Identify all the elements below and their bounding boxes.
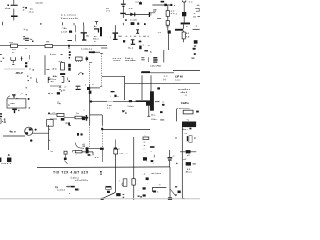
arc mark (78-82.5,72.5-75) bbox=[79, 73, 82, 75]
junction cross at x86 bbox=[86, 115, 88, 121]
colon mark (68,122.5) bbox=[68, 122, 70, 125]
sub box H17 (152.5,187.4) bbox=[153, 187, 167, 192]
dark mark (87.5,154.3) bbox=[88, 154, 91, 156]
svg-text:uAu.2: uAu.2 bbox=[181, 91, 188, 94]
svg-text:+1oo: +1oo bbox=[5, 8, 11, 10]
svg-text:1oo.2u: 1oo.2u bbox=[35, 2, 43, 4]
marks below wires (65-72,122-127) bbox=[65, 123, 67, 124]
svg-text:L.u.n.: L.u.n. bbox=[50, 54, 57, 56]
svg-text:xn.u.: xn.u. bbox=[29, 12, 35, 14]
mark (137,22.5) bbox=[137, 23, 139, 25]
capacitor C3 (electrolytic mid-top) bbox=[81, 25, 87, 40]
svg-text:(.): (.) bbox=[166, 26, 169, 28]
marks top right (193.8,53) bbox=[194, 53, 196, 55]
mark I. (57,101-104) bbox=[57, 101, 59, 104]
dashed shield x102.3 y125-150 bbox=[101, 125, 103, 150]
dashed shield wire V6 upper bbox=[89, 62, 91, 84]
wire H7 y101.3 bbox=[92, 100, 107, 102]
dot right of T bbox=[18, 110, 20, 112]
dark mark (75,188.6) bbox=[75, 189, 78, 191]
thick segment of H7 bbox=[136, 100, 147, 102]
dashes right of MX bbox=[66, 186, 70, 187]
thin vertical x102.5 y150-162 bbox=[102, 150, 104, 162]
small box B2 bbox=[47, 120, 54, 127]
diode D1 on H2 bbox=[130, 13, 135, 17]
left edge stack marks y113-117 bbox=[0, 113, 2, 114]
left edge bar (0,157.5) bbox=[0, 158, 1, 163]
small box (143,137) bbox=[143, 137, 149, 140]
tick right edge (23.8,29) bbox=[24, 28, 25, 31]
marks bottom row x125-146 bbox=[125, 19, 127, 21]
dot (29,108) bbox=[29, 107, 31, 109]
svg-text:dC: dC bbox=[86, 36, 89, 38]
wire pair into resistor network y114/119 bbox=[50, 113, 57, 115]
dark dash (144.4-148,50-51.5) bbox=[144, 50, 148, 51]
black bar connector (150,91.3-110.6) bbox=[150, 91, 154, 110]
ticks on rail bbox=[48, 128, 50, 131]
mark right (196,110.6) bbox=[196, 111, 199, 113]
svg-text:Cu: Cu bbox=[30, 8, 34, 10]
stub below junction bbox=[68, 47, 70, 49]
dots (12-14,64) bbox=[12, 64, 14, 65]
relay legs bbox=[77, 61, 81, 62]
svg-text:u.: u. bbox=[186, 26, 188, 28]
dark wedge component (7,157.5) bbox=[7, 158, 11, 163]
svg-text:...: ... bbox=[144, 135, 146, 137]
svg-text:L.C.8: L.C.8 bbox=[61, 31, 68, 33]
tick on V5 (46.5,69.4) bbox=[46, 68, 49, 71]
wire H13 y148.7 bbox=[86, 148, 102, 150]
dark cross node (60.6-64.4,118-120.6) bbox=[61, 118, 65, 121]
diode D4 bbox=[186, 150, 191, 153]
marks (137.5,196) bbox=[138, 195, 140, 197]
wire V17 x133.75 bbox=[133, 137, 135, 200]
svg-text:nu.ucA.u.s: nu.ucA.u.s bbox=[178, 88, 191, 91]
wire stub left edge y22-25 bbox=[2, 22, 4, 25]
plus blob (114.4,94.8) bbox=[114, 95, 116, 97]
node dot (32.5,41) bbox=[32, 41, 34, 42]
svg-text:u nn.u .n: u nn.u .n bbox=[1, 163, 12, 165]
junction blob (168,30.5) bbox=[168, 30, 171, 33]
svg-text:abc.~: abc.~ bbox=[182, 129, 189, 131]
vertical wire x75.5 upper bbox=[75, 25, 77, 41]
svg-text:u.un.u.nu.u: u.un.u.nu.u bbox=[177, 108, 190, 110]
angle mark (7-10,96-98) bbox=[7, 96, 10, 98]
left edge marks x0-5 bbox=[0, 54, 2, 55]
svg-text:u.: u. bbox=[94, 41, 96, 43]
dot (25.6,87.8) bbox=[26, 87, 27, 88]
wire below R4 bbox=[167, 25, 169, 30]
Q1 emitter arrow bbox=[25, 132, 28, 134]
svg-text:u.n: u.n bbox=[95, 157, 99, 159]
black square (123,40) bbox=[123, 40, 125, 42]
colon column (122.5,194-199) bbox=[123, 194, 125, 195]
power transistor black block (182,121.5) bbox=[182, 122, 196, 128]
sub-circuit box B1 bbox=[7, 99, 26, 108]
pot adjust dotted arrow (26-34,75-82) bbox=[27, 76, 28, 77]
wire V18 x115.6 bbox=[115, 154, 117, 192]
wire H7 junction dot bbox=[89, 101, 92, 103]
svg-text:u.u: u.u bbox=[164, 75, 168, 77]
svg-text:n.u.2u.n.u: n.u.2u.n.u bbox=[81, 48, 93, 50]
wire V x124.4 bbox=[123, 76, 125, 100]
svg-text:LIP NI: LIP NI bbox=[175, 75, 183, 79]
svg-text:u.: u. bbox=[194, 13, 196, 15]
dark plus mark (68.3,68) bbox=[68, 68, 70, 71]
svg-text:~.u: ~.u bbox=[119, 153, 123, 155]
diagonal wire stub bottom right bbox=[170, 189, 176, 196]
label above H3 bbox=[161, 1, 165, 3]
title box top line H14 bbox=[37, 166, 170, 169]
svg-text::.:: :.: bbox=[143, 148, 146, 150]
wire H11 y133.2 bbox=[32, 132, 48, 134]
svg-text:* Bu: * Bu bbox=[62, 28, 67, 30]
connector 8 marks (68.8-70.6,51-56) bbox=[69, 51, 71, 53]
svg-text:.u.: .u. bbox=[51, 93, 54, 95]
ground foot (113.9,147.6) bbox=[114, 148, 117, 150]
capacitor C7 horizontal plates (75.6,85.8/88.9) bbox=[76, 86, 81, 87]
wire V11 x142 bbox=[141, 75, 143, 100]
svg-text:u.ucv.n: u.ucv.n bbox=[57, 190, 66, 192]
cap stack Ξ (153-157.5,57-62.5) bbox=[153, 57, 157, 58]
capacitor to ground (131-135.6,39.4-45) bbox=[131, 39, 135, 45]
svg-text:n.u: n.u bbox=[189, 2, 193, 4]
wire V4 lower bbox=[183, 16, 185, 22]
transistor Q2 blob (85.6,57.5) bbox=[86, 57, 89, 60]
svg-text:JPn.P: JPn.P bbox=[15, 71, 23, 75]
resistor R11 on V17 bbox=[132, 179, 135, 185]
switch contact U shape (10.6-15.6,57-60.6) bbox=[11, 57, 16, 60]
corner mark (72.5,150.5) bbox=[73, 151, 75, 153]
crystal Y1 (137,29.4-33.8) bbox=[136, 29, 139, 34]
node mark left of C1 bbox=[7, 5, 9, 6]
resistor R3 bbox=[166, 11, 169, 17]
wire H4 y76.3 bbox=[102, 75, 125, 77]
svg-text:A.C;: A.C; bbox=[52, 67, 57, 70]
capacitor C5 (electrolytic at x123.5 top) bbox=[120, 0, 125, 18]
dot (25.6,94.6) bbox=[26, 94, 27, 95]
thin vertical (115.5,139.4-147.5) bbox=[115, 139, 117, 147]
arrow triangle (122.5,110.3) bbox=[122, 110, 126, 112]
svg-text:unn.nAse: unn.nAse bbox=[125, 59, 136, 62]
svg-text:n.u.s: n.u.s bbox=[175, 80, 181, 82]
shield top corner bbox=[100, 52, 103, 54]
junction node on H1 at x69 bbox=[68, 45, 70, 47]
vertical wire V5 x45 bbox=[44, 55, 46, 75]
diode D5 on V15 bbox=[186, 162, 191, 166]
diode D4 wire top right bbox=[180, 151, 196, 153]
wire from top edge to C1 bbox=[13, 0, 15, 5]
shield bottom corner bbox=[100, 85, 102, 87]
svg-text:4w. n: 4w. n bbox=[9, 130, 16, 134]
dark stack left edge (25,62-67.5) bbox=[25, 62, 27, 64]
svg-text:...: ... bbox=[75, 154, 77, 156]
svg-text:2,: 2, bbox=[29, 69, 31, 71]
black bar component (100,27) bbox=[100, 27, 102, 36]
svg-text:u:: u: bbox=[144, 142, 146, 144]
mark (157.3,87.5) bbox=[157, 87, 160, 89]
wire H9 y114.9 bbox=[90, 114, 102, 116]
faint wire y69 bbox=[4, 68, 25, 70]
bus wire H1 y45.7 bbox=[0, 45, 107, 47]
svg-text:n.u.2n: n.u.2n bbox=[130, 20, 138, 22]
small mark (40.5,23.5) bbox=[40, 23, 42, 24]
svg-text:u nn.x: u nn.x bbox=[113, 60, 121, 62]
wire V16b below title line bbox=[169, 167, 171, 199]
wire V15 x182.3 bbox=[182, 127, 184, 198]
resistor R1 on H1 bbox=[11, 44, 18, 47]
dark mark (142.5,194.5) bbox=[143, 194, 146, 196]
wire V3 continues bbox=[168, 34, 170, 50]
blob on H7 (128.8,100.2) bbox=[129, 100, 132, 102]
junction blob on H3 bbox=[164, 4, 167, 6]
dark corner (116.3,193.2) bbox=[116, 193, 120, 196]
wire H10 y129.4 bbox=[103, 128, 151, 130]
corner blob (101,198) bbox=[101, 198, 104, 200]
node dot on V5b bbox=[48, 78, 50, 80]
stub below C5 bbox=[122, 23, 124, 25]
tick (16.3,98) bbox=[16, 98, 17, 99]
svg-text:.nn: .nn bbox=[50, 81, 54, 83]
C6 plus node bbox=[64, 158, 67, 161]
wire H12 y136 bbox=[3, 135, 25, 137]
svg-text:ny: ny bbox=[55, 186, 59, 189]
capacitor C2 (plates at x25,y38/40) bbox=[25, 38, 29, 41]
dark T mark (12-15.6,94-97.5) bbox=[12, 94, 16, 95]
resistor R8 bbox=[75, 116, 82, 119]
resistor R4 bbox=[166, 21, 169, 26]
dot (33,70) bbox=[32, 69, 34, 71]
resistor R10 vertical (113.8,149.3) bbox=[114, 149, 118, 154]
svg-text:s.: s. bbox=[117, 96, 119, 98]
bracket contact right (20-23,56-61) bbox=[21, 56, 23, 61]
dark mark (142.5,187.4) bbox=[143, 187, 146, 189]
curve (20-23,92.5-95) bbox=[20, 93, 23, 95]
junction cross on H15 bbox=[86, 150, 89, 153]
left cluster marks x150-156 y146-164 bbox=[150, 146, 155, 148]
resistor R7 bbox=[57, 113, 64, 116]
svg-text:2.2u~: 2.2u~ bbox=[151, 119, 158, 121]
junction blob on V6 (87-90,87-90) bbox=[87, 87, 90, 90]
wire (50-58.8,86) bbox=[50, 85, 59, 87]
resistor R5 bbox=[182, 32, 185, 39]
wire between R3/R4 bbox=[167, 16, 169, 20]
small mark right edge (22.8,7.5) bbox=[23, 7, 25, 8]
dark corner (100,147.6) bbox=[100, 148, 104, 150]
diagonal wire bottom bbox=[100, 193, 115, 200]
shield wire x102.3 y114.9-125 bbox=[101, 115, 103, 125]
dots (60.6,54) bbox=[61, 54, 63, 55]
dot left (176.3,163) bbox=[176, 163, 178, 165]
dark curve mark (145.6,177.5) bbox=[146, 177, 149, 180]
bracket component (94-99,28-32) bbox=[94, 28, 99, 29]
wire V13 x151 bbox=[150, 75, 152, 91]
shield dashed wire x101.5 bbox=[101, 53, 103, 86]
gray dash row under H1 end bbox=[101, 47, 107, 50]
connector pin stubs under text row bbox=[61, 22, 63, 25]
svg-text:47u.u: 47u.u bbox=[186, 170, 193, 173]
capacitor C1 (electrolytic, top-left) bbox=[11, 5, 18, 21]
vertical dash x29.6 bbox=[29, 55, 31, 59]
bracket resistor right edge (60.6-64.4,76-82.5) bbox=[62, 76, 64, 82]
capacitor C9 on V16 bbox=[168, 150, 173, 167]
double dash (153,9.5) bbox=[153, 8, 156, 11]
small cap dark bar component (186.9,136.2) bbox=[187, 136, 188, 141]
dot (194.4,137.8) bbox=[194, 137, 196, 139]
curve mark (120.6,184) bbox=[122, 182, 124, 186]
tick inside B1 bbox=[8, 104, 10, 107]
svg-text:n.u: n.u bbox=[129, 8, 133, 10]
svg-text:BAt.: BAt. bbox=[53, 75, 58, 78]
arrow head mark (7.5,154) bbox=[8, 154, 10, 156]
svg-text:b. u. x.nn.u.a: b. u. x.nn.u.a bbox=[61, 14, 76, 16]
stem below contact bbox=[12, 61, 14, 64]
junction X blob on V4 bbox=[182, 12, 186, 16]
marks in sub box bbox=[153, 191, 156, 193]
dark square below (107,190.8) bbox=[107, 191, 110, 193]
wire above R5 bbox=[183, 31, 185, 32]
box B3 (123.2,178.8) bbox=[123, 179, 127, 187]
junction dot (35.5,129.6) bbox=[35, 129, 37, 131]
L mark (35.6-38,78-82.5) bbox=[36, 78, 38, 82]
mark 1. (66.3-70,77.5-82) bbox=[67, 78, 69, 81]
dash (157,18.5) bbox=[157, 17, 161, 20]
corner mark at V6 top bbox=[90, 61, 93, 63]
wire H6b y70.4 bbox=[173, 69, 200, 71]
marks left cluster (175,186-196) bbox=[175, 186, 177, 188]
R5 stub bbox=[183, 39, 185, 42]
svg-text:.u.: .u. bbox=[184, 95, 187, 97]
svg-text:]-1: ]-1 bbox=[0, 119, 6, 125]
svg-text:...: ... bbox=[90, 155, 92, 157]
svg-text:n.P.u.21.P.u: n.P.u.21.P.u bbox=[75, 180, 89, 182]
bracket (195-200,8-11) bbox=[195, 8, 199, 11]
wire V12 x148.8 bbox=[148, 102, 150, 116]
svg-text:A.: A. bbox=[150, 50, 153, 53]
dark blob (130.6,22) bbox=[131, 22, 135, 25]
svg-text:. .: . . bbox=[29, 73, 31, 75]
marks below D2 bbox=[194, 45, 196, 46]
relay box (75.6,57) bbox=[76, 57, 83, 61]
V6 solid lower bbox=[89, 84, 91, 125]
svg-text:.u.: .u. bbox=[12, 52, 15, 54]
dark triangle (139,2) bbox=[139, 2, 142, 4]
dash stack (141.3-145,57-61) bbox=[141, 57, 144, 58]
cap dash (110.6,91.2) bbox=[111, 91, 115, 92]
svg-text:TIX T2X 4.BT 32X: TIX T2X 4.BT 32X bbox=[53, 171, 89, 175]
small mark left edge (125.3,113) bbox=[125, 112, 127, 113]
dots above R2 bbox=[46, 40, 49, 43]
wire H15 y151.9 bbox=[75, 152, 93, 155]
thick bar2 (175,28.8) bbox=[175, 29, 183, 31]
dark cluster (143,157.3) bbox=[143, 157, 147, 160]
capacitor plate dash (67.5,40) bbox=[68, 39, 73, 42]
wire V14 x176.5 bbox=[176, 109, 178, 122]
arrow wire to right (88.8-100,52) bbox=[89, 51, 94, 53]
capacitor C4 at x115 bbox=[113, 25, 119, 40]
junction blob (85.6,147.5) bbox=[86, 147, 89, 150]
svg-text:x~u: x~u bbox=[106, 10, 111, 12]
diode D2 dark blob bbox=[194, 40, 198, 44]
svg-text:.:: .: bbox=[137, 189, 139, 191]
dashed vertical V6b x89.7 y125-148 bbox=[89, 125, 91, 148]
dark square (88.8,90.6) bbox=[89, 91, 92, 94]
svg-text:**: ** bbox=[159, 185, 161, 187]
svg-text:CL.u: CL.u bbox=[128, 48, 134, 50]
svg-text:1.2uu: 1.2uu bbox=[127, 106, 134, 108]
blob at H10 start bbox=[101, 128, 103, 130]
dash right of D5 bbox=[193, 163, 196, 164]
vertical rail x48.5 y125-150 bbox=[48, 125, 50, 150]
resistor R9 on H15 bbox=[75, 151, 82, 153]
junction blob bottom of V16b bbox=[168, 197, 172, 200]
dark dot (31,140.5) bbox=[30, 139, 32, 141]
diagonal tick below C6 bbox=[64, 161, 67, 164]
resistor R2 on H1 bbox=[45, 45, 53, 48]
speaker box (105.6,186.2) bbox=[106, 186, 112, 187]
thick bar on H6 left end bbox=[141, 71, 150, 73]
vertical wire V3 x167.8 bbox=[167, 5, 169, 11]
wire right from junction y87.9 bbox=[90, 87, 100, 89]
wire H2 y14.4 bbox=[125, 13, 150, 15]
pin with T top at x96 bbox=[95, 22, 98, 25]
black block end of H7 (146,101) bbox=[146, 100, 150, 105]
wire H3 y5 bbox=[152, 4, 170, 6]
dark bar (160,111.3) bbox=[160, 111, 163, 113]
diode D3 dark bbox=[82, 116, 85, 120]
svg-text:A.c.: A.c. bbox=[151, 114, 156, 117]
dotted annotation row y36 x125-148 bbox=[126, 35, 128, 38]
svg-text:x.: x. bbox=[69, 193, 71, 195]
Q1 collector mark bbox=[29, 128, 32, 130]
svg-text:(~): (~) bbox=[163, 79, 166, 81]
capacitor C6 box (64,151.3) bbox=[64, 151, 67, 154]
transistor Q1 circle bbox=[25, 127, 33, 135]
dashes on H7 extension (155,101.6) bbox=[155, 100, 160, 103]
svg-text:2.uu.n n.u.x.2u: 2.uu.n n.u.x.2u bbox=[61, 18, 78, 20]
fuse top U shape bbox=[183, 0, 186, 2]
dark L mark (68,63.8) bbox=[68, 64, 71, 68]
dot left edge (176,138) bbox=[175, 137, 176, 138]
connector bar right end of H2 bbox=[149, 12, 150, 17]
capacitor C2b at right edge of tile (23,36-39) bbox=[23, 36, 25, 39]
resistor R6 vertical bbox=[61, 63, 65, 71]
tick at V12 end bbox=[147, 116, 150, 117]
dark dot (28,99) bbox=[28, 98, 30, 100]
mark (144,23) bbox=[144, 23, 146, 25]
svg-text:u.: u. bbox=[162, 101, 164, 103]
small box outline right of it bbox=[189, 136, 192, 143]
tick (25.6,30) bbox=[26, 29, 28, 32]
wire V4 x184 bbox=[183, 2, 185, 12]
tick (48,93.4) bbox=[48, 92, 50, 95]
x mark (58.8-61.3,85-88) bbox=[59, 85, 61, 87]
diamond node right of H3 bbox=[170, 4, 172, 6]
vertical dash (147.5-150,57.5-62) bbox=[147, 57, 149, 62]
wire x163.75 y50-62 bbox=[163, 50, 165, 62]
svg-text:.c2.: .c2. bbox=[183, 159, 187, 161]
wire to R8 bbox=[64, 116, 75, 118]
node dot (49,113.5) bbox=[48, 112, 50, 114]
colon marks left edge x100 bbox=[100, 171, 102, 172]
transistor T mark below B1 bbox=[12, 109, 17, 111]
svg-text:uuu: uuu bbox=[10, 103, 15, 105]
faint bottom border bbox=[0, 198, 200, 200]
svg-text:n.A.n.PAn: n.A.n.PAn bbox=[150, 64, 162, 67]
wire with drop (150-155,12.8) bbox=[150, 13, 155, 16]
connector pins (77,133) bbox=[77, 133, 79, 136]
dark tick at (25,7) bbox=[25, 7, 27, 9]
